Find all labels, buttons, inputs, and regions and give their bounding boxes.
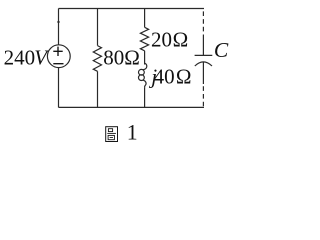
svg-text:240: 240 bbox=[4, 46, 35, 70]
svg-text:1: 1 bbox=[127, 121, 138, 145]
svg-text:Ω: Ω bbox=[124, 46, 140, 70]
capacitor C curved plate bbox=[195, 62, 212, 66]
wire bottom bbox=[59, 106, 205, 108]
dashed lead capacitor top bbox=[202, 11, 204, 35]
svg-text:20: 20 bbox=[151, 28, 172, 52]
voltage source V1 circle bbox=[47, 45, 70, 68]
wire branch 20 top bbox=[144, 9, 146, 28]
inductor j40ohm coil bbox=[143, 63, 147, 70]
wire left-lower bbox=[58, 68, 60, 108]
caption glyph tu (figure) bbox=[106, 127, 118, 142]
wire branch inductor bottom bbox=[144, 87, 146, 107]
svg-text:40: 40 bbox=[154, 64, 175, 88]
dashed lead capacitor bottom bbox=[202, 86, 204, 107]
wire branch 80 bottom bbox=[97, 71, 99, 107]
svg-text:V: V bbox=[34, 46, 49, 70]
junction dot on left wire bbox=[57, 21, 59, 23]
resistor 80ohm zigzag bbox=[93, 46, 101, 72]
wire left-upper bbox=[58, 9, 60, 45]
resistor 20ohm zigzag bbox=[140, 27, 148, 51]
solid lead capacitor top bbox=[202, 35, 204, 55]
wire top bbox=[59, 8, 205, 10]
svg-text:Ω: Ω bbox=[173, 28, 189, 52]
capacitor C top plate bbox=[195, 54, 213, 56]
wire between 20ohm and inductor bbox=[144, 51, 146, 65]
minus sign of source bbox=[53, 63, 63, 65]
solid lead capacitor bottom bbox=[202, 62, 204, 84]
plus sign of source bbox=[53, 47, 63, 64]
svg-text:Ω: Ω bbox=[176, 64, 192, 88]
wire branch 80 top bbox=[97, 9, 99, 46]
svg-text:80: 80 bbox=[103, 46, 124, 70]
svg-text:C: C bbox=[214, 38, 229, 62]
